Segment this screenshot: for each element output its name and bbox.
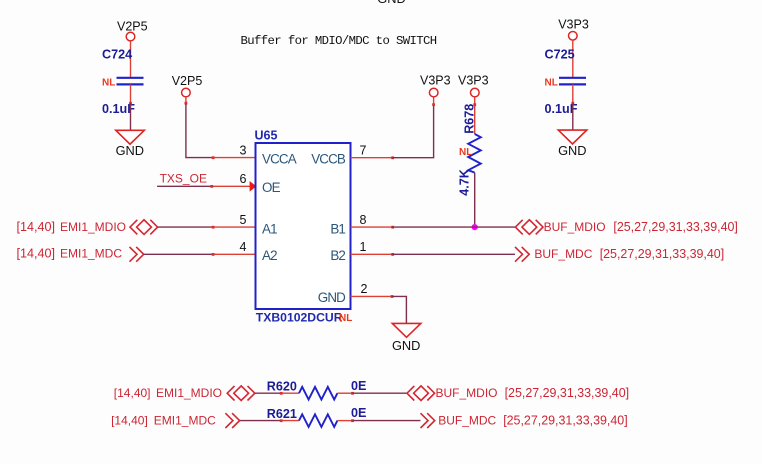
svg-text:R678: R678 [462, 104, 476, 134]
svg-text:V2P5: V2P5 [117, 20, 148, 34]
svg-text:U65: U65 [255, 129, 278, 143]
svg-text:V3P3: V3P3 [420, 74, 451, 88]
svg-text:OE: OE [262, 180, 281, 195]
junction tick R621 left [280, 419, 283, 422]
R620 left pin stub [281, 392, 299, 394]
svg-text:TXS_OE: TXS_OE [160, 172, 207, 186]
port EMI1_MDC (bottom row 2 left) [111, 413, 240, 428]
wire C724 to GND [130, 84, 132, 103]
svg-text:BUF_MDC: BUF_MDC [534, 247, 592, 261]
svg-text:TXB0102DCUR: TXB0102DCUR [256, 310, 343, 324]
port BUF_MDIO (right of B1) [515, 220, 737, 235]
svg-text:8: 8 [360, 213, 367, 227]
svg-text:B1: B1 [330, 221, 345, 236]
wire V3P3 to C725 top [572, 40, 574, 78]
svg-text:[25,27,29,31,33,39,40]: [25,27,29,31,33,39,40] [503, 413, 627, 427]
svg-text:V3P3: V3P3 [458, 74, 489, 88]
pin 6 stub [212, 185, 250, 187]
junction tick R621 right [351, 419, 354, 422]
wire V2P5 down and right to pin 3 [186, 104, 213, 158]
power symbol V2P5 (left, above C724) [117, 20, 148, 41]
wire EMI1_MDC to A2 [144, 253, 213, 255]
capacitor C724 [102, 48, 144, 116]
svg-text:R620: R620 [267, 380, 297, 394]
svg-text:4.7K: 4.7K [458, 169, 472, 196]
svg-text:4: 4 [240, 240, 247, 254]
svg-text:GND: GND [318, 290, 346, 305]
ground symbol (below C725) [558, 130, 587, 158]
svg-text:6: 6 [240, 172, 247, 186]
svg-text:GND: GND [392, 338, 420, 353]
capacitor C725 [545, 48, 587, 116]
junction dot [472, 224, 478, 230]
wire port to R620 [255, 392, 281, 394]
port EMI1_MDIO (left, to A1) [16, 220, 157, 235]
svg-text:BUF_MDIO: BUF_MDIO [436, 386, 498, 400]
svg-text:[14,40]: [14,40] [111, 413, 148, 427]
input arrow on OE pin [250, 181, 257, 192]
wire pin7 to V3P3 [392, 105, 434, 158]
svg-text:[25,27,29,31,33,39,40]: [25,27,29,31,33,39,40] [505, 386, 629, 400]
svg-text:B2: B2 [330, 248, 345, 263]
svg-text:VCCB: VCCB [311, 152, 346, 167]
junction tick V3P3 stub [432, 103, 435, 106]
junction tick pin3 [212, 156, 215, 159]
wire to ground symbol [130, 103, 132, 130]
junction tick pin8 [391, 226, 394, 229]
junction tick R620 left [280, 392, 283, 395]
power symbol V2P5 (feeds VCCA pin 3) [172, 74, 203, 97]
svg-text:2: 2 [361, 282, 368, 296]
junction tick R620 right [351, 392, 354, 395]
port BUF_MDIO (bottom row 1 right) [407, 386, 629, 401]
wire to ground symbol [572, 103, 574, 130]
svg-text:NL: NL [459, 147, 472, 158]
svg-text:GND: GND [116, 143, 144, 158]
svg-text:EMI1_MDC: EMI1_MDC [154, 413, 216, 427]
svg-text:[14,40]: [14,40] [16, 220, 55, 234]
svg-text:Buffer for MDIO/MDC to SWITCH: Buffer for MDIO/MDC to SWITCH [241, 34, 437, 48]
junction tick pin7 [391, 156, 394, 159]
wire C725 to GND [572, 84, 574, 103]
pin 3 stub [213, 157, 256, 159]
svg-text:NL: NL [545, 77, 558, 88]
junction tick pin4 [212, 253, 215, 256]
svg-text:BUF_MDIO: BUF_MDIO [544, 220, 606, 234]
svg-text:BUF_MDC: BUF_MDC [438, 413, 496, 427]
pin 8 stub [351, 226, 392, 228]
svg-text:NL: NL [102, 77, 115, 88]
svg-text:V2P5: V2P5 [172, 74, 203, 88]
power symbol V3P3 (above C725) [558, 18, 589, 40]
V3P3 stub above pin7 wire [433, 97, 435, 105]
svg-text:A2: A2 [262, 248, 277, 263]
power symbol V3P3 (feeds VCCB pin 7) [420, 74, 451, 97]
svg-text:A1: A1 [262, 221, 277, 236]
wire R621 to BUF_MDC port [352, 420, 420, 422]
junction tick C725-GND wire [571, 102, 574, 105]
ground symbol (below U65) [392, 323, 421, 352]
svg-text:[14,40]: [14,40] [16, 247, 55, 261]
op IC U65 TXB0102DCUR [255, 129, 353, 325]
svg-text:C725: C725 [545, 48, 575, 62]
svg-text:[25,27,29,31,33,39,40]: [25,27,29,31,33,39,40] [613, 220, 737, 234]
wire R621 to port [337, 420, 352, 422]
pin 4 stub [213, 253, 256, 255]
port BUF_MDC (right of B2) [515, 247, 724, 262]
wire R620 to port [337, 392, 352, 394]
ground symbol (below C724) [116, 130, 145, 158]
port EMI1_MDIO (bottom row 1 left) [114, 386, 255, 401]
pin 2 stub (GND) [351, 295, 392, 297]
junction tick pin1 [391, 253, 394, 256]
wire V3P3 to R678 [474, 97, 476, 134]
junction tick pin2 [391, 295, 394, 298]
svg-text:5: 5 [240, 213, 247, 227]
pin 5 stub [213, 226, 256, 228]
junction tick C724-GND wire [129, 102, 132, 105]
wire R678 to B1 net [474, 173, 476, 228]
svg-text:EMI1_MDIO: EMI1_MDIO [60, 220, 126, 234]
svg-text:GND: GND [558, 143, 586, 158]
junction tick V3P3-R678 stub [473, 103, 476, 106]
junction tick V2P5 stub [185, 102, 188, 105]
wire EMI1_MDIO to A1 [158, 226, 213, 228]
svg-text:7: 7 [360, 143, 367, 157]
svg-text:[25,27,29,31,33,39,40]: [25,27,29,31,33,39,40] [600, 247, 724, 261]
pin 1 stub [351, 253, 392, 255]
wire V2P5 to C724 top [130, 41, 132, 78]
wire B1 net to port [392, 226, 516, 228]
svg-text:NL: NL [339, 313, 352, 324]
wire pin2 to ground [392, 296, 407, 323]
svg-text:EMI1_MDC: EMI1_MDC [60, 247, 122, 261]
svg-text:EMI1_MDIO: EMI1_MDIO [156, 386, 222, 400]
svg-text:V3P3: V3P3 [558, 18, 589, 32]
R621 left pin stub [281, 420, 299, 422]
wire port to R621 [240, 420, 281, 422]
svg-text:0E: 0E [351, 406, 366, 420]
junction tick pin5 [212, 226, 215, 229]
wire TXS_OE [157, 185, 212, 187]
pin 7 stub [351, 157, 392, 159]
svg-text:R621: R621 [267, 407, 297, 421]
svg-text:VCCA: VCCA [262, 152, 297, 167]
svg-text:GND: GND [377, 0, 405, 6]
port BUF_MDC (bottom row 2 right) [421, 413, 628, 428]
junction tick pin6 [210, 185, 213, 188]
svg-text:3: 3 [240, 143, 247, 157]
port EMI1_MDC (left, to A2) [16, 247, 143, 262]
wire V2P5 to pin 3 [185, 97, 187, 104]
resistor R620 [267, 379, 367, 400]
wire R620 to BUF_MDIO port [352, 392, 407, 394]
svg-text:[14,40]: [14,40] [114, 386, 151, 400]
power symbol V3P3 (feeds R678) [458, 74, 489, 97]
wire B2 net to port [392, 253, 516, 255]
svg-text:C724: C724 [102, 48, 132, 62]
svg-text:0E: 0E [351, 379, 366, 393]
svg-text:1: 1 [360, 240, 367, 254]
resistor R678 [458, 104, 481, 196]
resistor R621 [267, 406, 367, 427]
